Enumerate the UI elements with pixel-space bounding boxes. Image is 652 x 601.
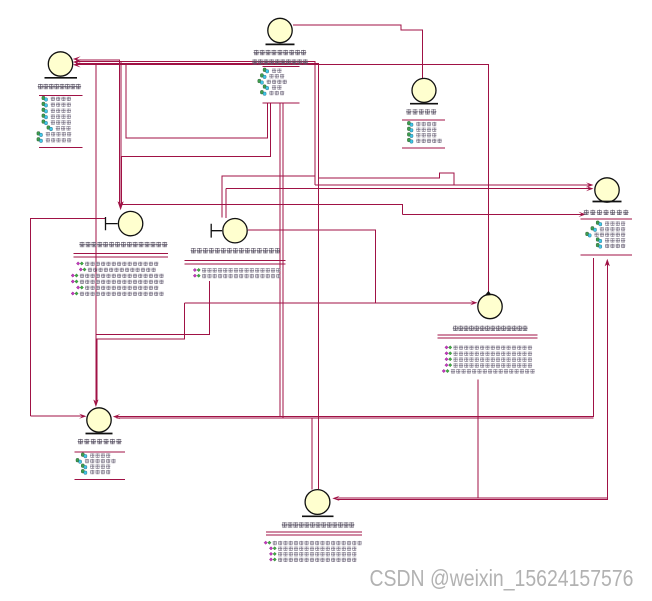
attributes account: [407, 121, 441, 143]
svg-text:CSDN @weixin_15624157576: CSDN @weixin_15624157576: [370, 565, 634, 591]
methods storage: [264, 541, 362, 562]
separator account top: [402, 119, 445, 121]
wire boundary1 second riser: [120, 61, 122, 203]
attributes admin: [258, 68, 287, 95]
separator boundary2 b: [185, 263, 286, 265]
arrowhead into doctor from top: [93, 400, 98, 408]
wire admin to boundary1 via y156.6: [122, 103, 271, 205]
wire corridor-b (pet to status riser): [76, 61, 315, 185]
boundary 控制器层 (controller layer): [211, 219, 247, 243]
wire boundary1 tbar to doctor: [31, 219, 106, 417]
wire corridor-d (pet to business riser): [76, 65, 488, 294]
label 35栋乐波_ss_管理员: [254, 50, 307, 55]
arrowhead into doctor from left: [79, 414, 87, 419]
arrowhead up into status bottom: [605, 259, 610, 267]
label 35栋乐波_预约管理_控制器层: [191, 248, 281, 253]
separator admin top: [263, 66, 300, 68]
wire corridor-c (pet to storage riser): [76, 63, 319, 489]
arrowheads into pet entity: [73, 56, 81, 67]
separator business a: [438, 334, 538, 336]
arrowhead into status label: [579, 212, 587, 217]
label 宠物预约状态类: [584, 210, 629, 215]
entity 医生状态列表类 (doctor status): [86, 408, 113, 434]
arrowhead into doctor from right: [113, 414, 121, 419]
arrowhead into boundary1 top: [118, 201, 124, 210]
separator status bottom: [580, 254, 632, 256]
methods boundary1: [71, 262, 164, 296]
label 医生状态列表类: [78, 439, 122, 444]
separator pet top: [39, 95, 83, 97]
boundary 用户界面层 (UI layer): [106, 211, 143, 235]
wire storage second line: [337, 497, 607, 499]
entity 账户信息类 (account info): [410, 78, 438, 103]
entity 宠物基本信息类 (pet info): [45, 52, 78, 78]
separator account bottom: [402, 147, 445, 149]
entity 宠物预约状态类 (appointment status): [593, 178, 622, 202]
wire corridor down to storage second: [311, 418, 313, 489]
arrowhead into storage from right: [332, 496, 340, 501]
wire business-side down to doctor col: [97, 303, 185, 401]
arrowhead into business control left: [470, 300, 478, 305]
separator boundary2 a: [185, 259, 286, 261]
wire admin riser-2 to doctor corridor: [282, 103, 284, 418]
entity actor 管理员 (admin): [266, 18, 295, 44]
wire admin to pet via x125.8: [126, 65, 268, 138]
separator doctor top: [74, 451, 125, 453]
arrowheads into status circle: [586, 182, 594, 191]
wire boundary1 to status-label long line: [121, 205, 402, 215]
wire status down to storage upper: [337, 264, 607, 500]
wire doctor right corridor upper: [117, 258, 594, 417]
attributes pet: [37, 96, 71, 142]
label 宠物基本 信息类: [38, 84, 81, 89]
entity 存储层 (storage): [302, 490, 334, 517]
label 35栋乐波_预约管理_用户界面层: [79, 242, 167, 247]
wire corridor-a (pet to boundary1 riser): [76, 60, 119, 203]
wire boundary2 top link y188.6: [225, 189, 227, 218]
wire boundary2 down-left to doctor col: [96, 281, 210, 334]
label 35栋乐波_预约管理__业务层: [453, 326, 528, 331]
wire boundary2 top link y176: [222, 176, 315, 218]
separator storage b: [266, 534, 362, 536]
wire boundary2 right to business: [248, 230, 375, 303]
label (from 系统创建用例图): [252, 59, 308, 64]
attributes doctor: [76, 453, 116, 475]
wire admin riser-1 to doctor corridor: [279, 103, 281, 417]
wire pet col down to doctor: [95, 63, 97, 401]
wire admin to account: [293, 25, 423, 78]
separator storage a: [266, 531, 362, 533]
label 35栋乐波_预约管理_存储层: [282, 522, 355, 527]
separator status top: [580, 218, 632, 220]
separator boundary1 a: [74, 253, 168, 255]
wire hop line y177.9: [319, 173, 454, 185]
separator business b: [438, 337, 538, 339]
wire business down to storage line: [477, 379, 479, 497]
separator doctor bottom: [74, 479, 125, 481]
control 业务层 (business layer): [478, 291, 502, 319]
methods boundary2: [193, 268, 280, 278]
wire business feeder y302.8 left part: [185, 302, 376, 304]
separator boundary1 b: [74, 256, 168, 258]
attributes status: [586, 221, 626, 248]
methods business: [442, 346, 535, 374]
separator pet bottom: [39, 146, 83, 148]
separator admin bottom: [263, 102, 300, 104]
wire doctor right corridor lower: [117, 417, 594, 419]
label 账户信息类: [406, 109, 436, 114]
